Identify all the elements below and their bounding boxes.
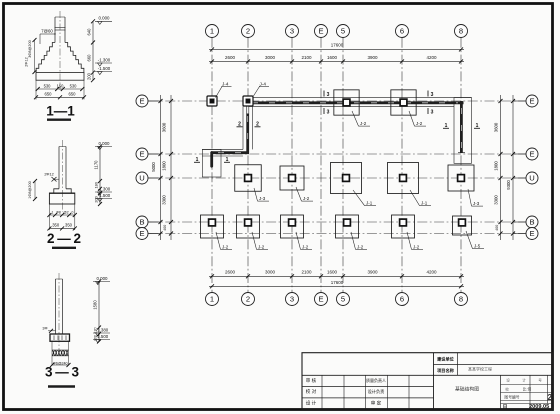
svg-text:J-1: J-1 xyxy=(366,201,373,206)
svg-text:3: 3 xyxy=(290,295,294,304)
footing J-3 grid8/U xyxy=(448,165,474,191)
svg-text:3 — 3: 3 — 3 xyxy=(45,365,79,380)
section 1-1 right dimension chain xyxy=(87,19,96,82)
grid bubble E left xyxy=(136,228,161,240)
footing J-1 grid5/U xyxy=(331,163,362,194)
right dimension chain segments xyxy=(493,95,515,240)
section 1-1 centerline xyxy=(59,11,61,90)
svg-text:比:例: 比:例 xyxy=(523,386,532,391)
top dimension line total 17600 xyxy=(209,43,464,52)
strip wall stub xyxy=(210,153,213,167)
svg-text:质量负责人: 质量负责人 xyxy=(366,377,386,383)
grid bubble E bottom xyxy=(315,293,328,306)
svg-text:U: U xyxy=(529,174,534,183)
svg-text:1580: 1580 xyxy=(93,300,98,310)
svg-text:1: 1 xyxy=(210,295,214,304)
section mark 3 above top strip at E xyxy=(324,91,330,99)
section 3-3 bottom rebar notes xyxy=(50,342,71,368)
label J-2 grid3/U xyxy=(296,187,313,201)
svg-text:建设单位: 建设单位 xyxy=(436,355,455,362)
svg-text:J-2: J-2 xyxy=(222,244,229,249)
label J-2 grid248/B xyxy=(252,232,268,249)
svg-text:设 计: 设 计 xyxy=(306,399,317,406)
svg-text:E: E xyxy=(139,150,144,159)
svg-text:660: 660 xyxy=(87,54,92,62)
grid line 3 vertical xyxy=(291,38,293,293)
svg-text:3: 3 xyxy=(431,92,434,98)
svg-text:审 核: 审 核 xyxy=(306,377,317,384)
grid bubble B left xyxy=(136,216,161,228)
grid line 6 vertical xyxy=(401,38,403,293)
footing J-2 grid6/E xyxy=(391,90,416,115)
grid bubble B right xyxy=(513,216,538,228)
section mark 2 right of grid2 wall xyxy=(255,122,261,128)
grid bubble U right xyxy=(513,172,538,184)
section 2-2 rebar X mark xyxy=(44,173,59,182)
strip footing outline right vertical xyxy=(454,98,472,164)
strip wall top run xyxy=(248,101,464,104)
section mark 3 below top strip at E xyxy=(324,108,330,116)
svg-text:3900: 3900 xyxy=(367,55,378,60)
footing J-2 grid403/B xyxy=(392,215,415,238)
svg-text:3300: 3300 xyxy=(162,195,167,205)
svg-text:640: 640 xyxy=(87,28,92,36)
svg-text:2Φ12: 2Φ12 xyxy=(25,57,29,66)
svg-text:1600: 1600 xyxy=(327,270,338,275)
svg-text:200: 200 xyxy=(94,335,98,341)
svg-text:1170: 1170 xyxy=(94,160,99,170)
label J-3 grid8/U xyxy=(468,189,483,206)
label J-2 grid6/E xyxy=(409,111,426,126)
section 2-2 title xyxy=(47,231,81,248)
svg-text:3000: 3000 xyxy=(265,270,276,275)
svg-text:120: 120 xyxy=(94,327,98,333)
strip wall grid2 vertical xyxy=(246,101,249,153)
svg-text:3000: 3000 xyxy=(265,55,276,60)
svg-text:J-2: J-2 xyxy=(413,244,420,249)
svg-text:1600: 1600 xyxy=(327,55,338,60)
svg-text:400: 400 xyxy=(495,225,499,231)
svg-text:1: 1 xyxy=(52,210,54,214)
grid bubble E left xyxy=(136,148,161,160)
svg-text:@2: @2 xyxy=(63,210,68,214)
svg-text:E: E xyxy=(139,229,144,238)
title block texts left xyxy=(306,377,386,407)
grid row B3 horizontal xyxy=(149,221,526,223)
title block frame xyxy=(302,353,553,410)
section mark 3 above top strip right xyxy=(428,91,434,99)
strip footing outline top run xyxy=(247,98,472,107)
strip footing outline grid2 vertical xyxy=(243,106,253,149)
section 3-3 footing pad xyxy=(50,334,70,341)
svg-text:0.000: 0.000 xyxy=(97,276,109,281)
grid bubble 2 bottom xyxy=(242,293,255,306)
section 2-2 right dimension chain xyxy=(94,145,103,207)
grid bubble 5 bottom xyxy=(337,293,350,306)
section 1-1 left rebar note xyxy=(25,38,37,74)
grid bubble 3 top xyxy=(286,25,299,38)
svg-text:2 — 2: 2 — 2 xyxy=(47,231,81,246)
svg-text:5: 5 xyxy=(341,27,345,36)
section 3-3 left rebar mark xyxy=(42,327,55,333)
grid line 1 vertical xyxy=(211,38,213,293)
footing J-2 grid212/B xyxy=(201,215,224,238)
label J-2 grid347/B xyxy=(351,232,367,249)
svg-text:3: 3 xyxy=(327,110,330,116)
footing J-2 grid5/E xyxy=(334,90,359,115)
svg-text:2600: 2600 xyxy=(225,270,236,275)
footing J-5 grid8/B xyxy=(453,216,472,235)
svg-text:J-4: J-4 xyxy=(222,81,229,86)
footing J-2 grid292/B xyxy=(281,215,304,238)
grid row E0 horizontal xyxy=(149,100,526,102)
svg-text:日: 日 xyxy=(503,403,508,410)
svg-text:2009.05: 2009.05 xyxy=(529,404,549,410)
svg-text:2: 2 xyxy=(246,27,250,36)
section 2-2 left rebar note xyxy=(28,179,37,201)
grid bubble 6 bottom xyxy=(396,293,409,306)
svg-text:17600: 17600 xyxy=(331,43,344,48)
section 1-1 level -1.300 xyxy=(95,57,112,66)
svg-text:2: 2 xyxy=(246,295,250,304)
footing J-4 grid1/E xyxy=(207,96,217,106)
svg-text:2600: 2600 xyxy=(225,55,236,60)
section 3-3 level -1.500 xyxy=(93,334,110,343)
section mark 3 below top strip right xyxy=(428,108,434,116)
svg-text:3300: 3300 xyxy=(493,195,498,205)
section 2-2 level 0.000 xyxy=(95,141,112,150)
svg-text:8: 8 xyxy=(459,295,463,304)
svg-text:号: 号 xyxy=(538,378,542,383)
svg-text:8: 8 xyxy=(459,27,463,36)
grid line 2 vertical xyxy=(247,38,249,293)
grid row E4 horizontal xyxy=(149,233,526,235)
grid bubble 5 top xyxy=(337,25,350,38)
grid line 8 vertical xyxy=(460,38,462,293)
svg-text:E: E xyxy=(529,150,534,159)
section 1-1 level -1.500 xyxy=(95,66,112,75)
footing J-2 grid248/B xyxy=(237,215,260,238)
svg-text:1Φ8@200: 1Φ8@200 xyxy=(28,181,32,198)
svg-text:J-3: J-3 xyxy=(473,201,480,206)
svg-text:图号编号: 图号编号 xyxy=(504,395,519,400)
section 2-2 level -1.500 xyxy=(95,193,112,202)
section 1-1 tie dimension 7@60 xyxy=(40,28,56,44)
grid bubble 2 top xyxy=(242,25,255,38)
svg-text:J-2: J-2 xyxy=(303,196,310,201)
svg-text:J-4: J-4 xyxy=(260,81,267,86)
section mark 1 right of right wall xyxy=(474,123,480,129)
left dimension chain segments xyxy=(151,95,173,240)
svg-text:设: 设 xyxy=(506,378,510,383)
label J-1 grid6/U xyxy=(410,190,431,206)
svg-text:设计负责: 设计负责 xyxy=(368,388,385,395)
svg-text:U: U xyxy=(139,174,144,183)
svg-text:150: 150 xyxy=(57,83,65,88)
label J-3 grid2/U xyxy=(254,188,269,201)
grid bubble 1 top xyxy=(206,25,219,38)
footing J-3 grid2/U xyxy=(235,165,262,192)
svg-text:-1.300: -1.300 xyxy=(98,57,111,62)
grid row U2 horizontal xyxy=(149,177,526,179)
section 3-3 centerline xyxy=(58,273,60,350)
grid bubble E right xyxy=(513,228,538,240)
svg-text:Φ8: Φ8 xyxy=(56,210,61,214)
svg-text:J-2: J-2 xyxy=(302,244,309,249)
section 1-1 title xyxy=(46,104,75,120)
svg-text:3600: 3600 xyxy=(162,122,167,132)
section 3-3 wall stem xyxy=(56,279,63,334)
grid line 5 vertical xyxy=(342,38,344,293)
title block texts right xyxy=(436,355,552,410)
svg-text:530: 530 xyxy=(70,83,78,88)
label J-1 grid5/U xyxy=(353,190,376,206)
grid line E vertical xyxy=(320,38,322,293)
strip wall lower horizontal run xyxy=(211,151,249,154)
svg-text:2100: 2100 xyxy=(301,270,312,275)
section 1-1 bottom dimensions xyxy=(34,80,86,99)
svg-text:350: 350 xyxy=(65,222,73,227)
grid bubble 1 bottom xyxy=(206,293,219,306)
svg-text:E: E xyxy=(529,229,534,238)
svg-text:J-3: J-3 xyxy=(259,196,266,201)
grid row E1 horizontal xyxy=(149,153,526,155)
svg-text:3: 3 xyxy=(290,27,294,36)
section mark 1 left of stub xyxy=(194,157,200,163)
grid bubble E left xyxy=(136,95,161,107)
svg-text:E: E xyxy=(139,97,144,106)
svg-text:180: 180 xyxy=(94,181,99,188)
label J-4 second xyxy=(253,81,270,97)
label J-2 grid212/B xyxy=(216,232,232,249)
grid bubble E right xyxy=(513,148,538,160)
section 3-3 level 0.000 xyxy=(93,276,110,285)
footing J-2 grid3/U xyxy=(280,166,304,190)
svg-text:J-2: J-2 xyxy=(357,244,364,249)
svg-text:17600: 17600 xyxy=(331,280,344,285)
section 2-2 wall stem xyxy=(59,147,66,189)
grid bubble 8 top xyxy=(455,25,468,38)
section 3-3 title xyxy=(45,365,79,387)
label J-4 first xyxy=(216,81,232,97)
grid bubble U left xyxy=(136,172,161,184)
svg-text:0.000: 0.000 xyxy=(99,141,111,146)
svg-text:650: 650 xyxy=(45,92,53,97)
svg-text:J-2: J-2 xyxy=(360,121,367,126)
section 3-3 level -1.380 xyxy=(93,327,110,336)
svg-text:某某学校工程: 某某学校工程 xyxy=(468,366,492,372)
svg-text:基础结构图: 基础结构图 xyxy=(455,386,479,393)
svg-text:计: 计 xyxy=(522,378,526,383)
svg-text:3600: 3600 xyxy=(493,122,498,132)
svg-text:1800: 1800 xyxy=(162,161,167,171)
svg-text:审 定: 审 定 xyxy=(371,399,382,406)
svg-text:650: 650 xyxy=(69,92,77,97)
svg-text:2Φ12: 2Φ12 xyxy=(44,173,53,177)
svg-text:0.000: 0.000 xyxy=(99,16,111,21)
label J-2 grid292/B xyxy=(296,232,312,249)
section 2-2 bottom dimensions xyxy=(47,204,76,230)
grid bubble 6 top xyxy=(396,25,409,38)
svg-text:200: 200 xyxy=(87,72,92,80)
svg-text:350: 350 xyxy=(52,222,60,227)
svg-text:2100: 2100 xyxy=(301,55,312,60)
svg-text:0: 0 xyxy=(72,210,74,214)
svg-text:7@60: 7@60 xyxy=(41,28,53,33)
svg-text:校 对: 校 对 xyxy=(306,388,317,395)
svg-text:2: 2 xyxy=(547,392,552,402)
svg-text:E: E xyxy=(318,27,323,36)
svg-text:J-2: J-2 xyxy=(416,121,423,126)
svg-text:3900: 3900 xyxy=(367,270,378,275)
strip wall right vertical xyxy=(458,101,465,153)
svg-text:5000: 5000 xyxy=(151,162,156,172)
svg-text:E: E xyxy=(529,97,534,106)
svg-text:B: B xyxy=(529,218,534,227)
strip footing outline stub J-6 xyxy=(202,149,221,177)
svg-text:3Φ8@200: 3Φ8@200 xyxy=(28,40,32,57)
svg-text:-1.500: -1.500 xyxy=(98,66,111,71)
bottom dimension line total 17600 xyxy=(209,280,464,288)
svg-text:5: 5 xyxy=(341,295,345,304)
section 3-3 right dimension chain xyxy=(93,280,102,344)
grid bubble 8 bottom xyxy=(455,293,468,306)
strip footing outline lower horizontal run xyxy=(202,149,252,156)
svg-text:4200: 4200 xyxy=(426,55,437,60)
grid bubble E top xyxy=(315,25,328,38)
section 1-1 column xyxy=(55,17,66,43)
svg-text:530: 530 xyxy=(44,83,52,88)
svg-text:400: 400 xyxy=(163,225,167,231)
section 2-2 footing pad xyxy=(49,189,74,204)
svg-text:J-1: J-1 xyxy=(421,201,428,206)
svg-text:B: B xyxy=(139,218,144,227)
svg-text:J-2: J-2 xyxy=(258,244,265,249)
section 1-1 stepped footing xyxy=(36,43,84,81)
footing J-4 grid2/E xyxy=(243,96,253,106)
footing J-1 grid6/U xyxy=(388,163,419,194)
footing J-2 grid347/B xyxy=(336,215,359,238)
svg-text:6: 6 xyxy=(400,295,404,304)
top dimension line segments xyxy=(209,55,464,64)
grid bubble 3 bottom xyxy=(286,293,299,306)
grid bubble E right xyxy=(513,95,538,107)
section 2-2 level -1.300 xyxy=(95,186,112,195)
bottom dimension line segments xyxy=(209,270,464,279)
svg-text:E: E xyxy=(318,295,323,304)
svg-text:3Φ: 3Φ xyxy=(42,327,47,331)
label J-2 grid403/B xyxy=(407,232,423,249)
section 2-2 centerline xyxy=(62,140,64,212)
label J-5 grid8/B xyxy=(466,231,484,249)
svg-text:项目名称: 项目名称 xyxy=(437,367,455,374)
svg-text:1: 1 xyxy=(210,27,214,36)
svg-text:9300: 9300 xyxy=(506,180,511,190)
svg-text:J-5: J-5 xyxy=(474,244,481,249)
svg-text:3: 3 xyxy=(431,110,434,116)
section 1-1 level 0.000 xyxy=(95,16,112,25)
svg-text:4200: 4200 xyxy=(426,270,437,275)
svg-text:1800: 1800 xyxy=(493,161,498,171)
label J-2 grid5/E xyxy=(352,111,370,126)
svg-text:校: 校 xyxy=(505,386,509,391)
section mark 1 right of stub xyxy=(224,157,230,163)
svg-text:200: 200 xyxy=(94,195,99,202)
section mark 1 left of right wall xyxy=(443,123,449,129)
section mark 2 left of grid2 wall xyxy=(237,122,243,128)
svg-text:3: 3 xyxy=(327,92,330,98)
svg-text:1—1: 1—1 xyxy=(46,104,75,119)
svg-text:6: 6 xyxy=(400,27,404,36)
